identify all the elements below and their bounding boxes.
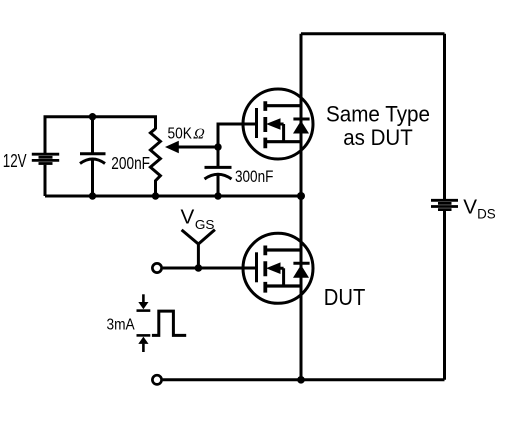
svg-text:Same Type: Same Type xyxy=(326,101,430,126)
wire: 200nF top lead xyxy=(91,117,94,154)
wire: VGS to Q2 gate xyxy=(163,267,256,270)
svg-text:V: V xyxy=(181,206,195,229)
mosfet Q1 circle xyxy=(243,89,313,159)
battery B1 12V xyxy=(32,154,59,163)
wire: wiper to 300nF xyxy=(217,147,220,166)
wire: 200nF bottom lead xyxy=(91,159,94,196)
svg-text:DUT: DUT xyxy=(324,284,366,310)
wire: bottom-left bus xyxy=(45,195,301,198)
wire: bottom bus xyxy=(163,378,445,381)
Q1 body arrow xyxy=(266,118,281,130)
svg-text:12V: 12V xyxy=(3,151,27,171)
pot wiper arrow xyxy=(165,141,179,154)
potentiometer R1 50K zigzag xyxy=(150,129,160,196)
pulse waveform xyxy=(152,311,186,335)
Q1 body diode xyxy=(293,118,309,121)
battery B2 VDS xyxy=(431,200,458,209)
Q2 gate bar xyxy=(255,252,258,282)
Q1 source lead xyxy=(265,140,301,143)
svg-text:as DUT: as DUT xyxy=(343,125,413,150)
Q2 channel segments xyxy=(263,246,267,293)
svg-text:3mA: 3mA xyxy=(107,317,135,334)
wire: right rail lower xyxy=(443,211,446,380)
wire: top bus xyxy=(301,32,445,35)
wire: wiper riser to Q1 gate xyxy=(218,124,256,147)
wire: battery bottom xyxy=(44,165,47,196)
Q2 source lead xyxy=(265,284,301,287)
terminal: VGS input xyxy=(152,263,161,272)
svg-text:V: V xyxy=(463,195,477,218)
Q1 channel segments xyxy=(263,101,267,148)
3mA arrow up xyxy=(137,334,151,337)
svg-text:200nF: 200nF xyxy=(111,153,150,173)
Q1 drain lead xyxy=(265,104,301,107)
VGS probe fork xyxy=(182,230,215,268)
terminal: bottom xyxy=(152,375,161,384)
svg-text:DS: DS xyxy=(477,205,496,221)
capacitor C1 200nF xyxy=(80,152,106,155)
wire: 300nF bottom lead xyxy=(217,174,220,196)
wire: right rail upper xyxy=(443,34,446,199)
Q2 body diode xyxy=(293,262,309,265)
mosfet Q2 circle xyxy=(243,233,313,303)
svg-text:300nF: 300nF xyxy=(235,168,273,186)
Q1 gate bar xyxy=(255,108,258,138)
svg-text:GS: GS xyxy=(195,217,215,232)
3mA arrow down xyxy=(142,294,145,302)
svg-text:50K: 50K xyxy=(168,126,193,143)
wire: left loop top (battery top to pot top) xyxy=(45,117,156,154)
Q2 drain lead xyxy=(265,248,301,251)
wire: main vertical rail xyxy=(300,34,303,380)
capacitor C2 300nF xyxy=(205,166,232,169)
Q2 body arrow xyxy=(266,262,281,274)
